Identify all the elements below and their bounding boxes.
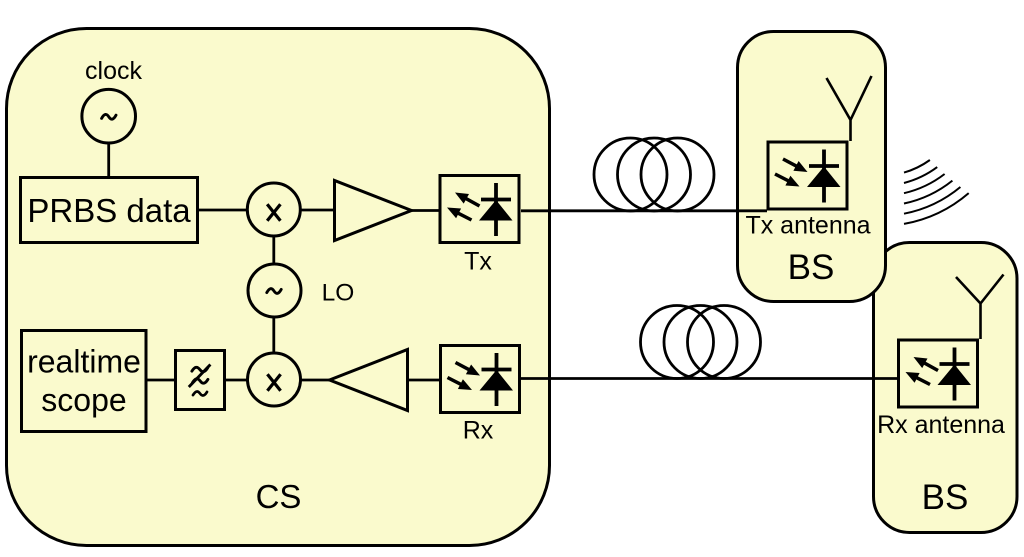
mixer M1 xyxy=(247,183,300,236)
PRBS data box xyxy=(21,178,198,243)
svg-text:CS: CS xyxy=(256,478,302,515)
Rx optical module xyxy=(441,346,520,413)
Tx optical module xyxy=(440,176,519,243)
mixer M2 xyxy=(248,353,301,406)
svg-text:Rx: Rx xyxy=(463,417,494,445)
clock source circle xyxy=(82,89,136,143)
svg-text:BS: BS xyxy=(788,248,835,287)
realtime scope box xyxy=(22,331,147,432)
amplifier A1 xyxy=(335,181,412,241)
wire filter to mixer M2 xyxy=(224,379,248,382)
svg-text:clock: clock xyxy=(85,57,142,85)
CS enclosure (central station) xyxy=(7,29,550,546)
svg-text:scope: scope xyxy=(41,382,126,418)
svg-text:BS: BS xyxy=(922,478,969,517)
Rx antenna optical module xyxy=(899,340,978,407)
wire LO to M2 xyxy=(272,316,275,354)
wire M1 to amplifier A1 xyxy=(300,209,334,212)
wire PRBS to mixer M1 xyxy=(198,209,247,212)
wire scope to filter xyxy=(146,379,176,382)
BS2 antenna xyxy=(956,275,1004,340)
LO source circle xyxy=(248,264,301,317)
svg-text:Tx: Tx xyxy=(464,248,492,276)
wire M1 to LO xyxy=(272,236,275,265)
svg-text:Tx antenna: Tx antenna xyxy=(745,212,870,240)
svg-text:realtime: realtime xyxy=(27,344,141,380)
radio waves xyxy=(904,160,969,224)
BS1 antenna xyxy=(827,76,872,141)
wire Tx module to BS1 (fiber link, upper) xyxy=(521,209,767,212)
BS2 enclosure (bottom right base station) xyxy=(874,243,1018,533)
wire A1 to Tx module xyxy=(411,209,440,212)
svg-text:Rx antenna: Rx antenna xyxy=(877,411,1005,439)
svg-text:PRBS data: PRBS data xyxy=(27,192,191,229)
amplifier A2 (pointing left) xyxy=(330,350,408,411)
svg-text:LO: LO xyxy=(322,280,355,307)
filter (bandpass) box xyxy=(176,351,225,410)
wire clock to PRBS data box xyxy=(107,143,110,177)
Tx antenna optical module xyxy=(768,142,847,209)
fiber coil F2 (lower) xyxy=(641,306,714,379)
wire M2 to amplifier A2 xyxy=(300,379,330,382)
BS1 enclosure (top right base station) xyxy=(738,32,886,302)
wire A2 to Rx module xyxy=(407,379,440,382)
wire Rx module to BS2 (fiber link, lower) xyxy=(521,377,898,380)
fiber coil F1 (upper) xyxy=(594,138,667,211)
